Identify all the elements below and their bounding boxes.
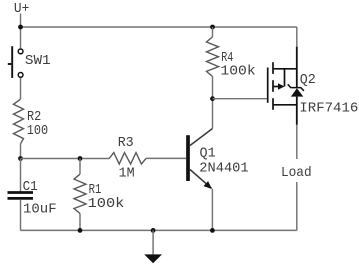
wire bottom rail [21, 229, 297, 231]
wire C1 top lead [20, 159, 22, 192]
svg-text:R2: R2 [27, 110, 41, 125]
body diode D1 leads / Q2 source and drain pin stubs [296, 46, 298, 125]
wire U+ to SW1 pin 1 [20, 14, 22, 49]
svg-text:C1: C1 [23, 180, 38, 195]
body diode D1 cathode bar [288, 84, 304, 91]
wire R4 top lead [212, 27, 214, 37]
svg-text:R3: R3 [118, 136, 134, 151]
resistor R1 [74, 174, 86, 213]
wire top supply rail [21, 26, 297, 28]
junction node A at C1 top [18, 156, 23, 161]
wire gate node to Q2 gate [213, 98, 267, 100]
wire ground stem [152, 230, 154, 254]
wire Q1 emitter to bottom rail [211, 189, 213, 231]
resistor R4 [207, 37, 219, 77]
junction R1 bottom [78, 228, 83, 233]
svg-text:2N4401: 2N4401 [199, 162, 248, 177]
svg-text:U+: U+ [14, 2, 29, 17]
wire right rail lower [296, 182, 298, 230]
wire right rail middle [296, 125, 298, 160]
resistor R2 [14, 99, 24, 144]
wire R2 to node A [20, 144, 22, 159]
wire R1 top lead [79, 159, 81, 175]
body diode D1 anode triangle [291, 88, 303, 96]
wire Q1 collector to gate node [212, 99, 214, 129]
wire R3 to Q1 base [146, 157, 186, 159]
svg-text:Q2: Q2 [300, 73, 316, 88]
ground [144, 254, 162, 263]
wire node A to R3 [21, 158, 110, 160]
svg-text:100k: 100k [220, 64, 255, 80]
resistor R3 [109, 153, 146, 165]
mosfet Q2 [268, 62, 297, 110]
svg-text:IRF7416: IRF7416 [299, 102, 358, 117]
mosfet Q2 body arrow [278, 83, 285, 89]
junction U+ rail [18, 25, 23, 30]
switch SW1 [8, 46, 23, 78]
svg-text:100k: 100k [88, 196, 125, 212]
svg-text:1M: 1M [119, 166, 135, 181]
junction gate node [210, 96, 215, 101]
junction Q1 emitter bottom [210, 228, 215, 233]
svg-text:Load: Load [281, 165, 312, 181]
junction R1 top [78, 156, 83, 161]
wire R1 bottom lead [79, 213, 81, 230]
wire right rail upper [296, 27, 298, 47]
svg-text:Q1: Q1 [200, 146, 216, 161]
transistor Q1 [188, 129, 213, 190]
junction R4 top [210, 25, 215, 30]
svg-text:10uF: 10uF [23, 202, 57, 217]
wire R4 bottom lead [212, 77, 214, 99]
wire SW1 pin 2 to R2 [20, 78, 22, 99]
svg-text:SW1: SW1 [25, 54, 51, 69]
svg-text:100: 100 [27, 124, 48, 139]
capacitor C1 [8, 193, 34, 199]
junction ground stem [151, 228, 156, 233]
wire C1 bottom lead [20, 200, 22, 231]
